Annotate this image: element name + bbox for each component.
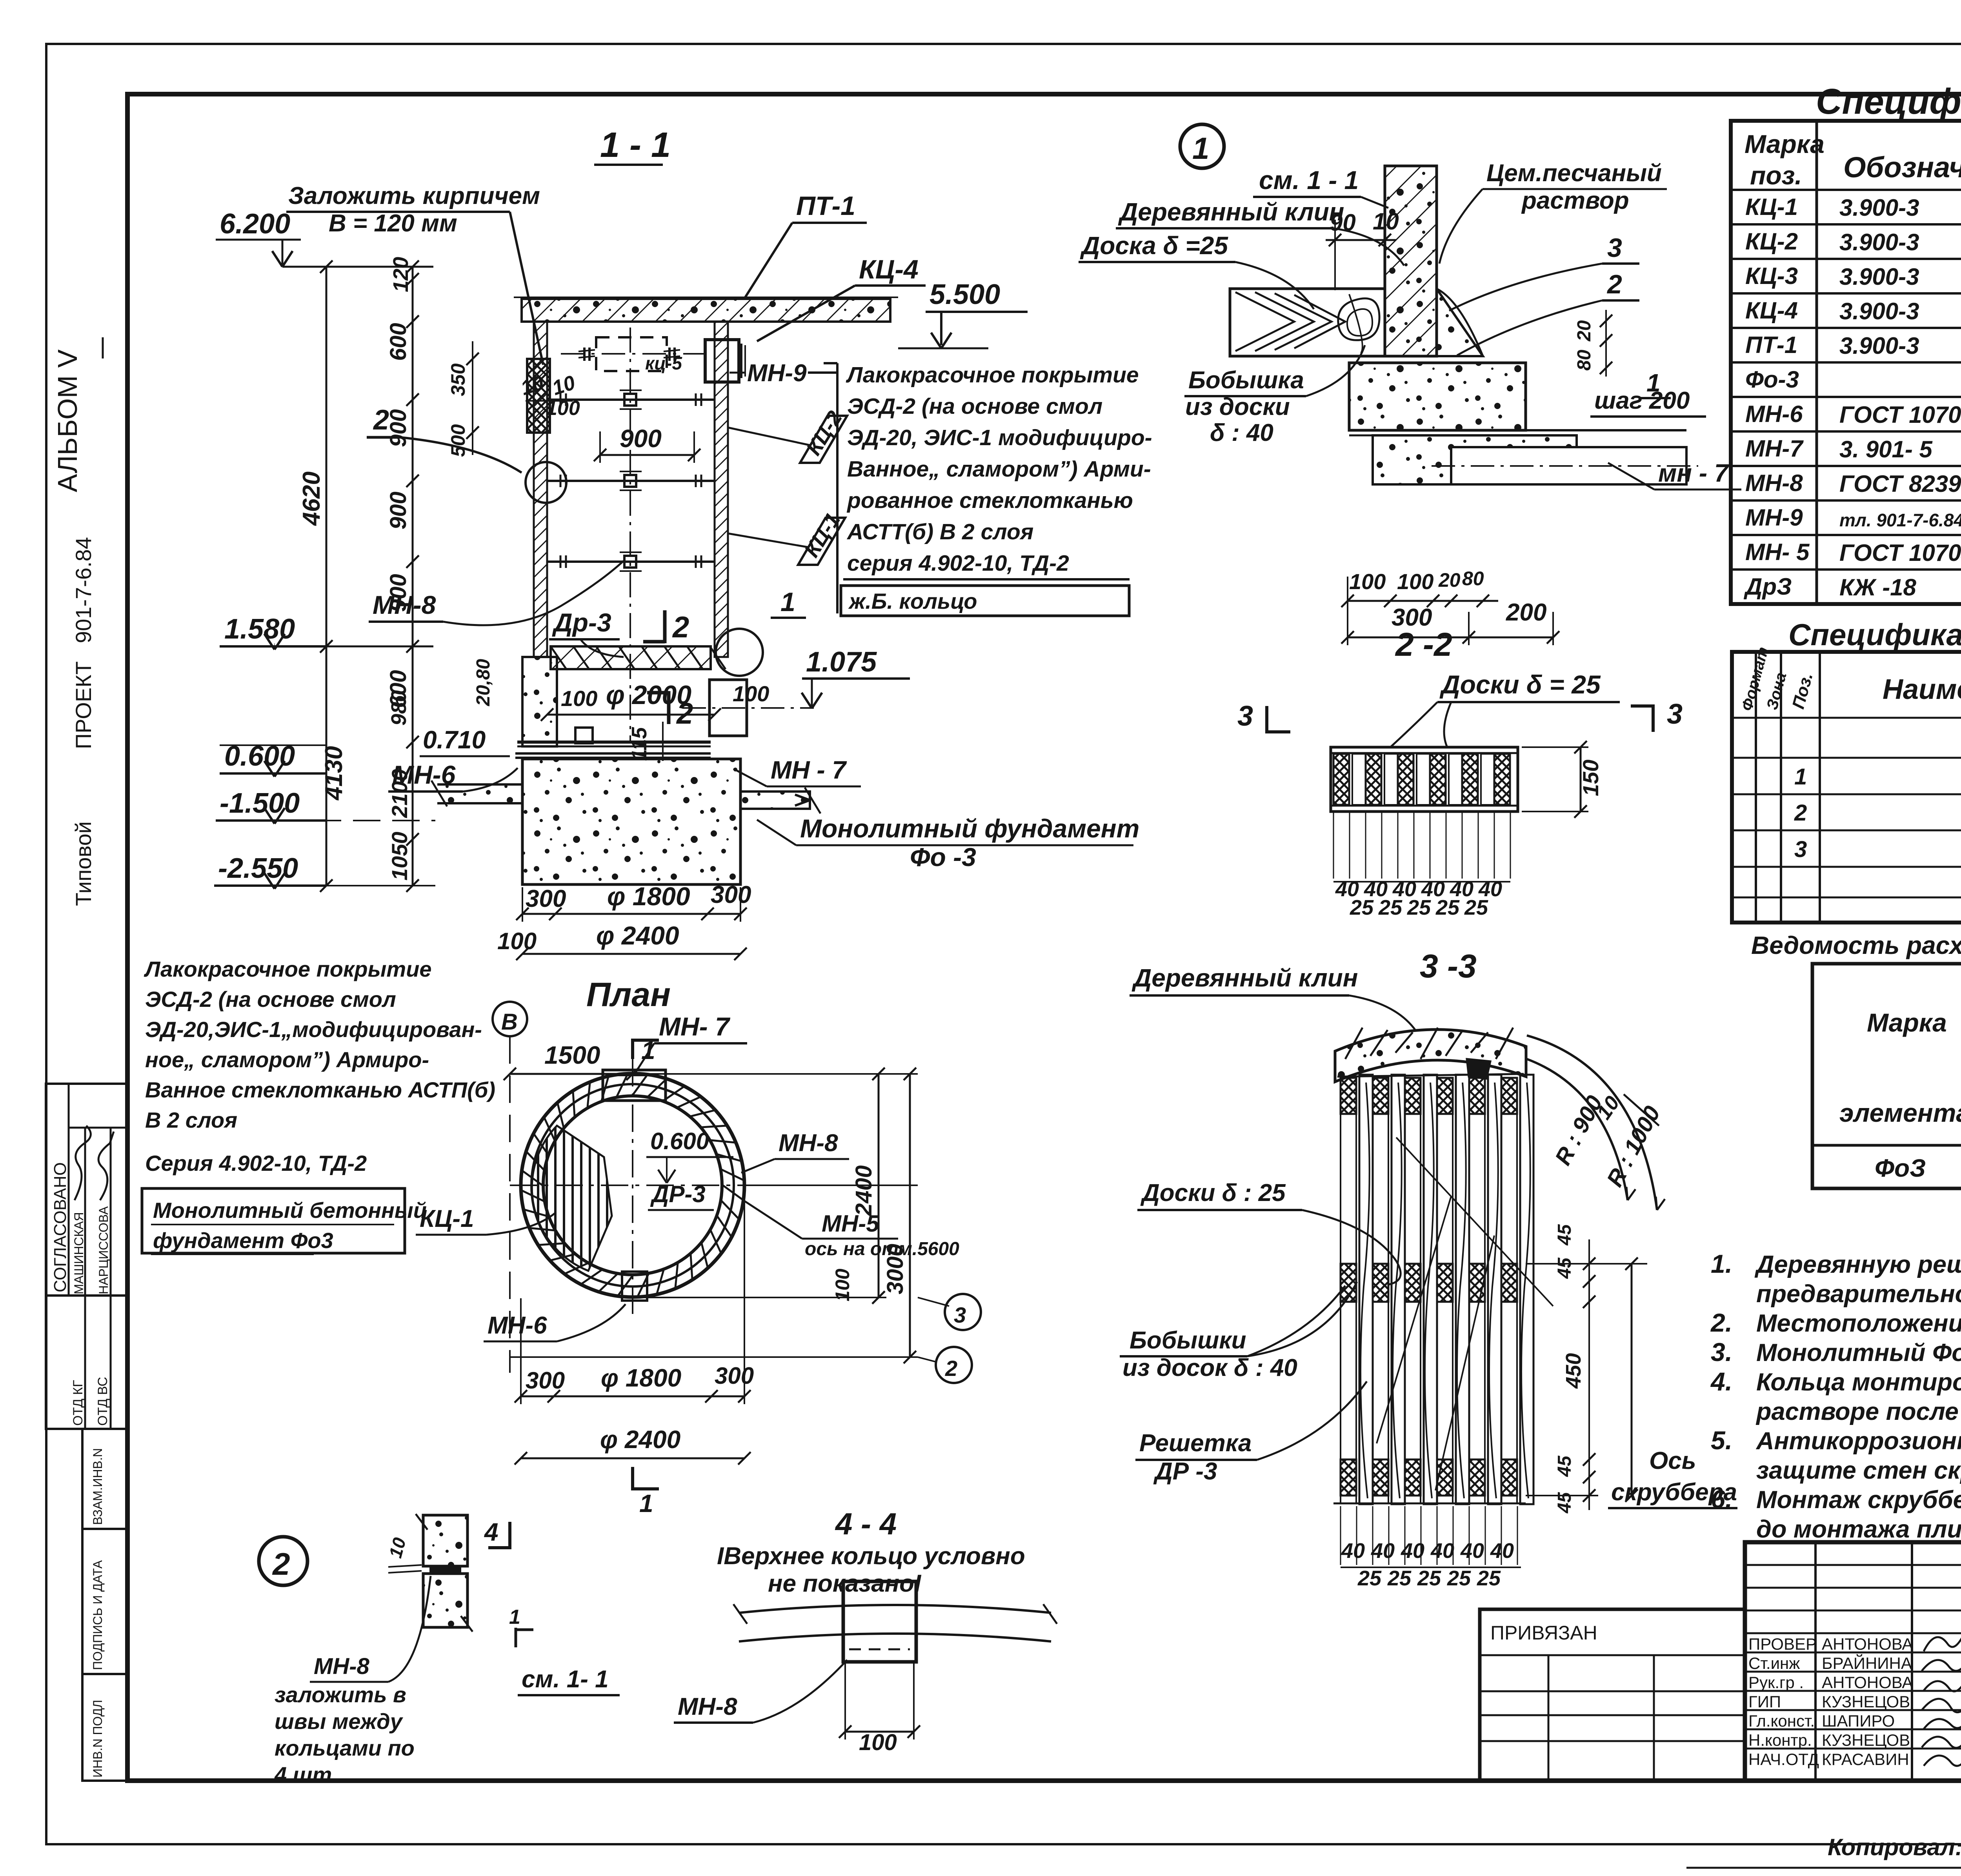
svg-text:серия 4.902-10, ТД-2: серия 4.902-10, ТД-2 (847, 551, 1069, 576)
right dims 45 45 450 of 3-3 (1588, 1239, 1590, 1510)
svg-text:элемента: элемента (1839, 1098, 1961, 1127)
MN-7 sleeve box on right side (709, 680, 747, 736)
svg-text:2: 2 (945, 1356, 957, 1381)
svg-text:20: 20 (1574, 320, 1595, 342)
plan bottom dims 300 1800 300 (521, 1396, 744, 1397)
svg-text:тл. 901-7-6.84кжи. мн9: тл. 901-7-6.84кжи. мн9 (1839, 510, 1961, 530)
svg-text:Фо-3: Фо-3 (1745, 366, 1799, 393)
vertical dimension line with totals 4620 and 4130 (326, 267, 327, 886)
svg-text:Деревянный клин: Деревянный клин (1118, 198, 1344, 226)
svg-text:1500: 1500 (544, 1041, 600, 1069)
svg-text:5.500: 5.500 (930, 279, 1000, 310)
mortar joint filling right of wall (1437, 289, 1483, 356)
svg-text:НАЧ.ОТД: НАЧ.ОТД (1748, 1750, 1819, 1769)
svg-text:45: 45 (1554, 1257, 1575, 1279)
svg-text:3 -3: 3 -3 (1420, 948, 1477, 984)
plan right dim 2400 rotated (878, 1074, 880, 1297)
svg-text:КЦ-4: КЦ-4 (1745, 297, 1798, 324)
svg-text:МН-8: МН-8 (779, 1130, 838, 1157)
svg-text:АЛЬБОМ V: АЛЬБОМ V (52, 349, 83, 492)
title block signatures (1924, 1612, 1961, 1651)
svg-text:3: 3 (1794, 837, 1807, 862)
level dash line -1.500 (275, 820, 435, 821)
KC-4 ring piece on right wall (705, 340, 739, 382)
level line -2.550 (275, 885, 435, 886)
svg-text:Монолитный бетонный: Монолитный бетонный (153, 1198, 427, 1223)
svg-text:100: 100 (831, 1268, 853, 1301)
extension lines for plan dims (633, 1073, 918, 1075)
plan center axes (510, 1185, 777, 1186)
top slab PT-1 of scrubber (522, 299, 890, 322)
wall ring in detail (speckled+hatch) (1385, 166, 1437, 356)
svg-text:4 шт.: 4 шт. (274, 1762, 338, 1787)
svg-text:3.: 3. (1711, 1337, 1732, 1367)
svg-text:защите стен скруббера.: защите стен скруббера. (1756, 1457, 1961, 1484)
svg-text:900: 900 (386, 491, 411, 530)
svg-text:КРАСАВИН: КРАСАВИН (1822, 1750, 1909, 1769)
bottom edge of planks (1333, 1503, 1526, 1505)
axis circle 3 (945, 1294, 981, 1330)
svg-text:МАШИНСКАЯ: МАШИНСКАЯ (72, 1212, 86, 1294)
svg-text:раствор: раствор (1521, 187, 1629, 214)
svg-text:600: 600 (386, 323, 411, 361)
MN-7 sleeve rectangle top of plan (603, 1070, 666, 1101)
svg-text:БРАЙНИНА: БРАЙНИНА (1822, 1654, 1912, 1672)
svg-text:2: 2 (272, 1547, 290, 1581)
extension lines below 3-3 planks (1340, 1506, 1341, 1565)
svg-text:25: 25 (1464, 896, 1488, 919)
pit floor slab (517, 741, 711, 744)
svg-text:100: 100 (1397, 569, 1433, 594)
svg-text:из досок δ : 40: из досок δ : 40 (1122, 1354, 1297, 1381)
dim 900 under opening (600, 454, 694, 456)
node 1 detail circle (1180, 124, 1224, 168)
svg-text:3.900-3: 3.900-3 (1839, 195, 1919, 221)
svg-text:300: 300 (526, 885, 566, 912)
plan circle r2 (531, 1084, 734, 1286)
svg-text:980: 980 (387, 690, 411, 726)
svg-text:350: 350 (447, 363, 469, 396)
4-4 MN-8 plate box (843, 1581, 916, 1662)
MN-6 embedded plate double line (515, 752, 711, 755)
svg-text:100: 100 (561, 686, 597, 711)
svg-text:1.580: 1.580 (224, 613, 295, 645)
plan right dim 3000 rotated (909, 1074, 911, 1357)
svg-text:Монтаж скруббера и засыпку кол: Монтаж скруббера и засыпку колец насадки… (1756, 1486, 1961, 1514)
svg-text:1: 1 (780, 587, 795, 617)
svg-text:Решетка: Решетка (1139, 1430, 1252, 1457)
svg-text:предварительно окрашенных эпок: предварительно окрашенных эпоксидной смо… (1756, 1280, 1961, 1308)
svg-text:ОТД ВС: ОТД ВС (95, 1377, 110, 1426)
plan bottom dim 2400 (521, 1457, 744, 1459)
curved top slab of 3-3 (arc band) (1335, 1030, 1526, 1082)
svg-text:Спецификация скруббера: Спецификация скруббера (1816, 82, 1961, 122)
lower ring concrete in detail (1349, 363, 1526, 430)
svg-text:Марка: Марка (1745, 129, 1825, 158)
svg-text:КУЗНЕЦОВ: КУЗНЕЦОВ (1822, 1731, 1910, 1749)
MN-8 plate in joint of node 2 (431, 1566, 460, 1574)
wooden plank horizontal (wedge area) (1230, 289, 1385, 356)
MN-7 sleeve in detail (1451, 447, 1686, 484)
svg-text:Монолитный фундамент: Монолитный фундамент (800, 814, 1139, 843)
bobyshki cross-hatched blocks in band (1333, 754, 1349, 805)
svg-text:Фо -3: Фо -3 (910, 842, 976, 872)
left wing slab of foundation (437, 784, 522, 803)
bobyshki row 1 under slab (1341, 1078, 1356, 1114)
svg-text:3.900-3: 3.900-3 (1839, 333, 1919, 359)
svg-text:25: 25 (1387, 1567, 1412, 1590)
svg-text:шаг 200: шаг 200 (1594, 387, 1690, 414)
planks white in band (1352, 754, 1366, 805)
margin box VZAM.INV (82, 1429, 127, 1529)
monolithic foundation Fo-3 block (speckled) (522, 759, 740, 884)
svg-text:МН-8: МН-8 (1745, 470, 1803, 496)
right wall of scrubber rings (hatched) (715, 322, 728, 657)
sump left wall below grating (522, 657, 557, 746)
cut mark 1 node2 (515, 1628, 517, 1647)
steel consumption table grid (1812, 964, 1961, 1188)
svg-text:Копировал: Боброва: Копировал: Боброва (1828, 1834, 1961, 1860)
svg-text:АНТОНОВА: АНТОНОВА (1822, 1635, 1913, 1653)
4-4 ring band arcs (739, 1605, 1051, 1613)
svg-text:100: 100 (1349, 569, 1386, 594)
ring wall pieces of node 2 (423, 1515, 468, 1566)
svg-text:1: 1 (509, 1606, 520, 1629)
section cut 2 lower (667, 691, 671, 724)
svg-text:Доска δ =25: Доска δ =25 (1080, 231, 1228, 260)
margin box SOGLASOVANO (46, 1084, 127, 1296)
svg-text:10: 10 (1373, 208, 1399, 235)
svg-text:МН - 7: МН - 7 (771, 756, 847, 784)
svg-text:900: 900 (386, 409, 411, 447)
svg-text:25: 25 (1417, 1567, 1441, 1590)
dim 150 right of band (1580, 747, 1582, 812)
svg-text:кц-5: кц-5 (645, 353, 682, 373)
svg-text:Спецификация монолитного фу: Спецификация монолитного фундамента ФоЗ (1788, 617, 1961, 652)
svg-text:В 2 слоя: В 2 слоя (145, 1108, 237, 1132)
svg-text:до монтажа плит покрытия здани: до монтажа плит покрытия здания. (1756, 1516, 1961, 1543)
svg-text:25: 25 (1435, 896, 1460, 919)
bobyshki row 3 lower (1341, 1459, 1356, 1496)
cut mark 1 top of plan (631, 1039, 634, 1059)
svg-text:φ 1800: φ 1800 (607, 882, 690, 911)
parallelogram callout KC-2 on right wall (800, 416, 847, 463)
svg-text:ГОСТ 10704 -76: ГОСТ 10704 -76 (1839, 402, 1961, 428)
svg-text:5.: 5. (1711, 1426, 1732, 1455)
plan outer circle (521, 1074, 744, 1297)
svg-text:Н.контр.: Н.контр. (1748, 1731, 1812, 1749)
svg-text:ЭСД-2 (на основе смол: ЭСД-2 (на основе смол (145, 987, 396, 1012)
svg-text:300: 300 (711, 881, 751, 908)
svg-text:ДР-3: ДР-3 (650, 1181, 706, 1207)
svg-text:Заложить кирпичем: Заложить кирпичем (288, 182, 540, 209)
svg-text:МН-8: МН-8 (678, 1693, 737, 1720)
svg-text:поз.: поз. (1750, 161, 1802, 190)
svg-text:В = 120 мм: В = 120 мм (329, 210, 457, 237)
svg-text:900: 900 (620, 424, 662, 453)
svg-text:фундамент Фо3: фундамент Фо3 (153, 1228, 333, 1253)
svg-text:ДрЗ: ДрЗ (1743, 573, 1792, 600)
svg-text:25: 25 (1378, 896, 1403, 919)
vertical dimension chain small values (412, 267, 414, 886)
svg-text:4130: 4130 (320, 746, 347, 801)
svg-text:мн - 7: мн - 7 (1658, 459, 1730, 487)
svg-text:3000: 3000 (882, 1244, 908, 1294)
svg-text:ШАПИРО: ШАПИРО (1822, 1712, 1895, 1730)
long vertical planks of grating (1359, 1075, 1373, 1504)
svg-text:МН- 7: МН- 7 (659, 1012, 731, 1041)
privyazan box (1480, 1609, 1745, 1781)
svg-text:1 - 1: 1 - 1 (600, 126, 671, 165)
svg-text:φ 2400: φ 2400 (596, 921, 679, 950)
axis line through opening (561, 353, 706, 355)
axis B circle (493, 1002, 527, 1036)
svg-text:25: 25 (1357, 1567, 1382, 1590)
level line 6.200 (282, 266, 433, 268)
svg-text:В: В (501, 1009, 518, 1035)
ring joint lines and MN-8 fixing marks (547, 398, 715, 401)
svg-text:40: 40 (1371, 1539, 1395, 1563)
svg-text:φ 1800: φ 1800 (601, 1364, 681, 1392)
title block left columns (1814, 1542, 1817, 1781)
svg-text:ПТ-1: ПТ-1 (1745, 332, 1797, 358)
svg-text:100: 100 (497, 928, 537, 954)
parallelogram callout KC-1 on right wall (798, 518, 845, 565)
svg-text:Антикоррозионная защита плиты: Антикоррозионная защита плиты перекрытия… (1755, 1427, 1961, 1455)
svg-text:2: 2 (1606, 269, 1622, 299)
svg-text:25: 25 (1407, 896, 1431, 919)
svg-text:ж.Б. кольцо: ж.Б. кольцо (848, 589, 977, 613)
svg-text:2 -2: 2 -2 (1395, 626, 1452, 663)
svg-text:3: 3 (954, 1303, 966, 1327)
svg-text:150: 150 (1578, 760, 1603, 796)
svg-text:80: 80 (1462, 568, 1484, 590)
svg-text:КЦ-1: КЦ-1 (420, 1205, 474, 1232)
svg-text:Доски δ : 25: Доски δ : 25 (1140, 1179, 1286, 1206)
svg-text:3: 3 (1237, 701, 1253, 732)
svg-text:2: 2 (676, 697, 693, 730)
svg-text:МН- 5: МН- 5 (1745, 539, 1810, 565)
svg-text:δ : 40: δ : 40 (1210, 419, 1273, 446)
section cut 2 upper (663, 610, 667, 643)
svg-text:Серия 4.902-10, ТД-2: Серия 4.902-10, ТД-2 (145, 1151, 367, 1175)
svg-text:заложить в: заложить в (275, 1682, 406, 1707)
svg-text:Наименование: Наименование (1883, 674, 1961, 705)
title block left row lines (1745, 1564, 1961, 1566)
svg-text:-2.550: -2.550 (218, 853, 298, 884)
bottom dim phi 2400 (522, 953, 740, 955)
svg-text:НАРЦИССОВА: НАРЦИССОВА (96, 1206, 111, 1294)
grating Dr-3 band in section (551, 646, 711, 669)
svg-text:3.900-3: 3.900-3 (1839, 264, 1919, 290)
sleeve axis line (682, 707, 814, 709)
svg-text:3: 3 (1607, 233, 1622, 263)
svg-text:Др-3: Др-3 (552, 608, 611, 637)
svg-text:ПРОВЕР: ПРОВЕР (1748, 1635, 1817, 1653)
wooden wedge under slab (1467, 1059, 1490, 1079)
specification foundation table grid (1732, 652, 1961, 923)
svg-text:Ст.инж: Ст.инж (1748, 1654, 1800, 1672)
svg-text:1: 1 (1192, 131, 1209, 166)
cut mark 1 bottom of plan (631, 1467, 634, 1490)
svg-text:ФоЗ: ФоЗ (1875, 1154, 1926, 1182)
svg-text:Типовой: Типовой (71, 821, 96, 906)
svg-text:КЦ-1: КЦ-1 (1745, 194, 1798, 220)
svg-text:1: 1 (1794, 764, 1807, 790)
svg-text:КЖ -18: КЖ -18 (1839, 574, 1917, 600)
left wall of scrubber rings (hatched) (534, 322, 547, 657)
svg-text:450: 450 (1562, 1353, 1585, 1389)
svg-text:швы между: швы между (275, 1709, 404, 1734)
svg-text:40: 40 (1460, 1539, 1484, 1563)
svg-text:4620: 4620 (298, 471, 325, 526)
svg-text:2: 2 (1794, 800, 1807, 826)
svg-text:45: 45 (1554, 1224, 1575, 1246)
svg-text:115: 115 (628, 727, 651, 761)
svg-text:Бобышки: Бобышки (1130, 1327, 1246, 1354)
svg-text:Гл.конст.: Гл.конст. (1748, 1712, 1815, 1730)
axis circle 2 (936, 1347, 972, 1383)
extension lines below band (1333, 812, 1334, 879)
svg-text:3.900-3: 3.900-3 (1839, 229, 1919, 255)
margin box OTD KG / OTD VS (46, 1296, 127, 1429)
hatch arcs on ring wall (723, 1185, 743, 1200)
svg-text:120: 120 (389, 257, 413, 292)
svg-text:500: 500 (447, 424, 469, 457)
svg-text:1: 1 (639, 1489, 653, 1518)
svg-text:1.075: 1.075 (806, 646, 877, 678)
svg-text:Деревянную решетку изготавлива: Деревянную решетку изготавливать из сосн… (1754, 1251, 1961, 1278)
svg-text:80: 80 (1574, 349, 1595, 371)
svg-text:ное„ сламором”) Армиро-: ное„ сламором”) Армиро- (145, 1047, 429, 1072)
svg-text:40: 40 (1401, 1539, 1424, 1563)
svg-text:901-7-6.84: 901-7-6.84 (71, 537, 96, 643)
dim 100 4-4 (845, 1731, 914, 1733)
svg-text:МН-9: МН-9 (1745, 504, 1803, 531)
svg-text:ЭД-20, ЭИС-1 модифициро-: ЭД-20, ЭИС-1 модифициро- (847, 425, 1152, 450)
center axis of scrubber (629, 328, 631, 741)
svg-text:2400: 2400 (851, 1165, 877, 1216)
svg-text:40: 40 (1341, 1539, 1365, 1563)
svg-text:Ось: Ось (1649, 1447, 1696, 1474)
boxed label zh.B. koltso (841, 586, 1129, 616)
bobyshka end grain swirl (1338, 298, 1379, 340)
svg-text:3. 901- 5: 3. 901- 5 (1839, 436, 1933, 462)
svg-text:Обозначение: Обозначение (1843, 151, 1961, 184)
svg-text:Ванное стеклотканью АСТП(б): Ванное стеклотканью АСТП(б) (145, 1077, 495, 1102)
svg-text:СОГЛАСОВАНО: СОГЛАСОВАНО (51, 1162, 70, 1292)
svg-text:2.: 2. (1710, 1308, 1732, 1337)
svg-text:45: 45 (1554, 1455, 1575, 1477)
svg-text:ГИП: ГИП (1748, 1692, 1781, 1711)
svg-text:Монолитный Фо-3 Выполнять из: Монолитный Фо-3 Выполнять из бетона М-20… (1756, 1339, 1961, 1367)
MN-6 rectangle bottom of plan (622, 1272, 647, 1301)
svg-text:25: 25 (1350, 896, 1374, 919)
svg-text:40: 40 (1490, 1539, 1514, 1563)
svg-text:рованное стеклотканью: рованное стеклотканью (846, 488, 1133, 513)
svg-text:ОТД КГ: ОТД КГ (71, 1380, 85, 1426)
svg-text:100: 100 (859, 1730, 897, 1755)
bottom dims of foundation 300 1800 300 (522, 913, 740, 915)
svg-text:Ванное„ сламором”) Арми-: Ванное„ сламором”) Арми- (847, 457, 1151, 482)
svg-text:6.200: 6.200 (220, 208, 290, 240)
svg-text:0.710: 0.710 (423, 726, 486, 754)
svg-text:1.: 1. (1711, 1249, 1732, 1278)
margin box PODPIS I DATA (82, 1529, 127, 1674)
ledge lines below (1349, 429, 1686, 431)
svg-text:Цем.песчаный: Цем.песчаный (1486, 160, 1662, 187)
svg-text:4 - 4: 4 - 4 (835, 1507, 897, 1541)
axis B vertical dash line (509, 1036, 511, 1373)
svg-text:Ведомость расхода стали на эле: Ведомость расхода стали на элемент, кг (1751, 931, 1961, 959)
svg-text:200: 200 (1506, 599, 1546, 626)
margin box INV N PODL (82, 1674, 127, 1781)
plank band of section 2-2 (1331, 747, 1518, 812)
svg-text:кольцами по: кольцами по (275, 1736, 415, 1760)
svg-text:ГОСТ 10704 -76: ГОСТ 10704 -76 (1839, 540, 1961, 566)
svg-text:300: 300 (715, 1363, 754, 1389)
dashed opening in upper ring (596, 337, 667, 371)
small pad on floor (575, 728, 593, 743)
svg-text:План: План (586, 976, 671, 1014)
svg-text:АНТОНОВА: АНТОНОВА (1822, 1673, 1913, 1692)
svg-text:2100: 2100 (387, 769, 412, 818)
node 2 detail circle (259, 1537, 307, 1585)
wood grain chevrons (1235, 292, 1294, 351)
svg-text:КЦ-2: КЦ-2 (1745, 228, 1798, 255)
svg-text:300: 300 (526, 1367, 565, 1394)
svg-text:0.600: 0.600 (650, 1128, 709, 1154)
svg-text:МН-6: МН-6 (1745, 401, 1803, 427)
svg-text:20: 20 (1438, 569, 1461, 591)
margin signature squiggles (75, 1126, 91, 1200)
wood grain wavy lines on planks (1361, 1083, 1370, 1498)
svg-text:25: 25 (1477, 1567, 1501, 1590)
svg-text:КЦ-4: КЦ-4 (859, 255, 919, 284)
svg-text:ГОСТ 8239 -72: ГОСТ 8239 -72 (1839, 471, 1961, 497)
svg-text:из доски: из доски (1185, 393, 1290, 420)
svg-text:3: 3 (1667, 699, 1683, 730)
svg-text:3.900-3: 3.900-3 (1839, 298, 1919, 324)
vertical dim line 450 inner (1631, 1264, 1633, 1496)
radius arcs R900 R1000 (1527, 1059, 1628, 1200)
specification scrubber table grid (1731, 121, 1961, 604)
svg-text:2: 2 (672, 611, 689, 644)
svg-text:ПРОЕКТ: ПРОЕКТ (71, 661, 96, 749)
svg-text:МН-9: МН-9 (747, 360, 807, 387)
svg-text:см. 1- 1: см. 1- 1 (522, 1666, 609, 1693)
svg-text:ИНВ.N ПОДЛ: ИНВ.N ПОДЛ (91, 1700, 105, 1778)
svg-text:Лакокрасочное покрытие: Лакокрасочное покрытие (144, 957, 432, 981)
svg-text:25: 25 (1447, 1567, 1471, 1590)
svg-text:Бобышка: Бобышка (1188, 367, 1304, 394)
svg-text:АСТТ(б) В 2 слоя: АСТТ(б) В 2 слоя (846, 519, 1033, 544)
svg-text:МН-6: МН-6 (488, 1312, 547, 1339)
svg-text:Местоположение скруббера В пла: Местоположение скруббера В плане см. лис… (1756, 1310, 1961, 1337)
svg-text:ПТ-1: ПТ-1 (796, 191, 855, 221)
svg-text:Марка: Марка (1867, 1008, 1947, 1037)
svg-text:100: 100 (733, 681, 769, 706)
svg-text:4: 4 (484, 1518, 498, 1546)
svg-text:4.: 4. (1710, 1367, 1732, 1396)
svg-text:ІВерхнее кольцо условно: ІВерхнее кольцо условно (717, 1543, 1025, 1570)
svg-text:Деревянный клин: Деревянный клин (1131, 964, 1358, 992)
svg-text:ЭД-20,ЭИС-1„модифицирован-: ЭД-20,ЭИС-1„модифицирован- (145, 1017, 482, 1042)
boxed label monolithic concrete foundation (142, 1188, 405, 1253)
svg-text:ЭСД-2 (на основе смол: ЭСД-2 (на основе смол (847, 394, 1102, 419)
svg-text:растворе после установки фикси: растворе после установки фиксирующих мар… (1755, 1398, 1961, 1425)
svg-text:МН-7: МН-7 (1745, 435, 1804, 462)
